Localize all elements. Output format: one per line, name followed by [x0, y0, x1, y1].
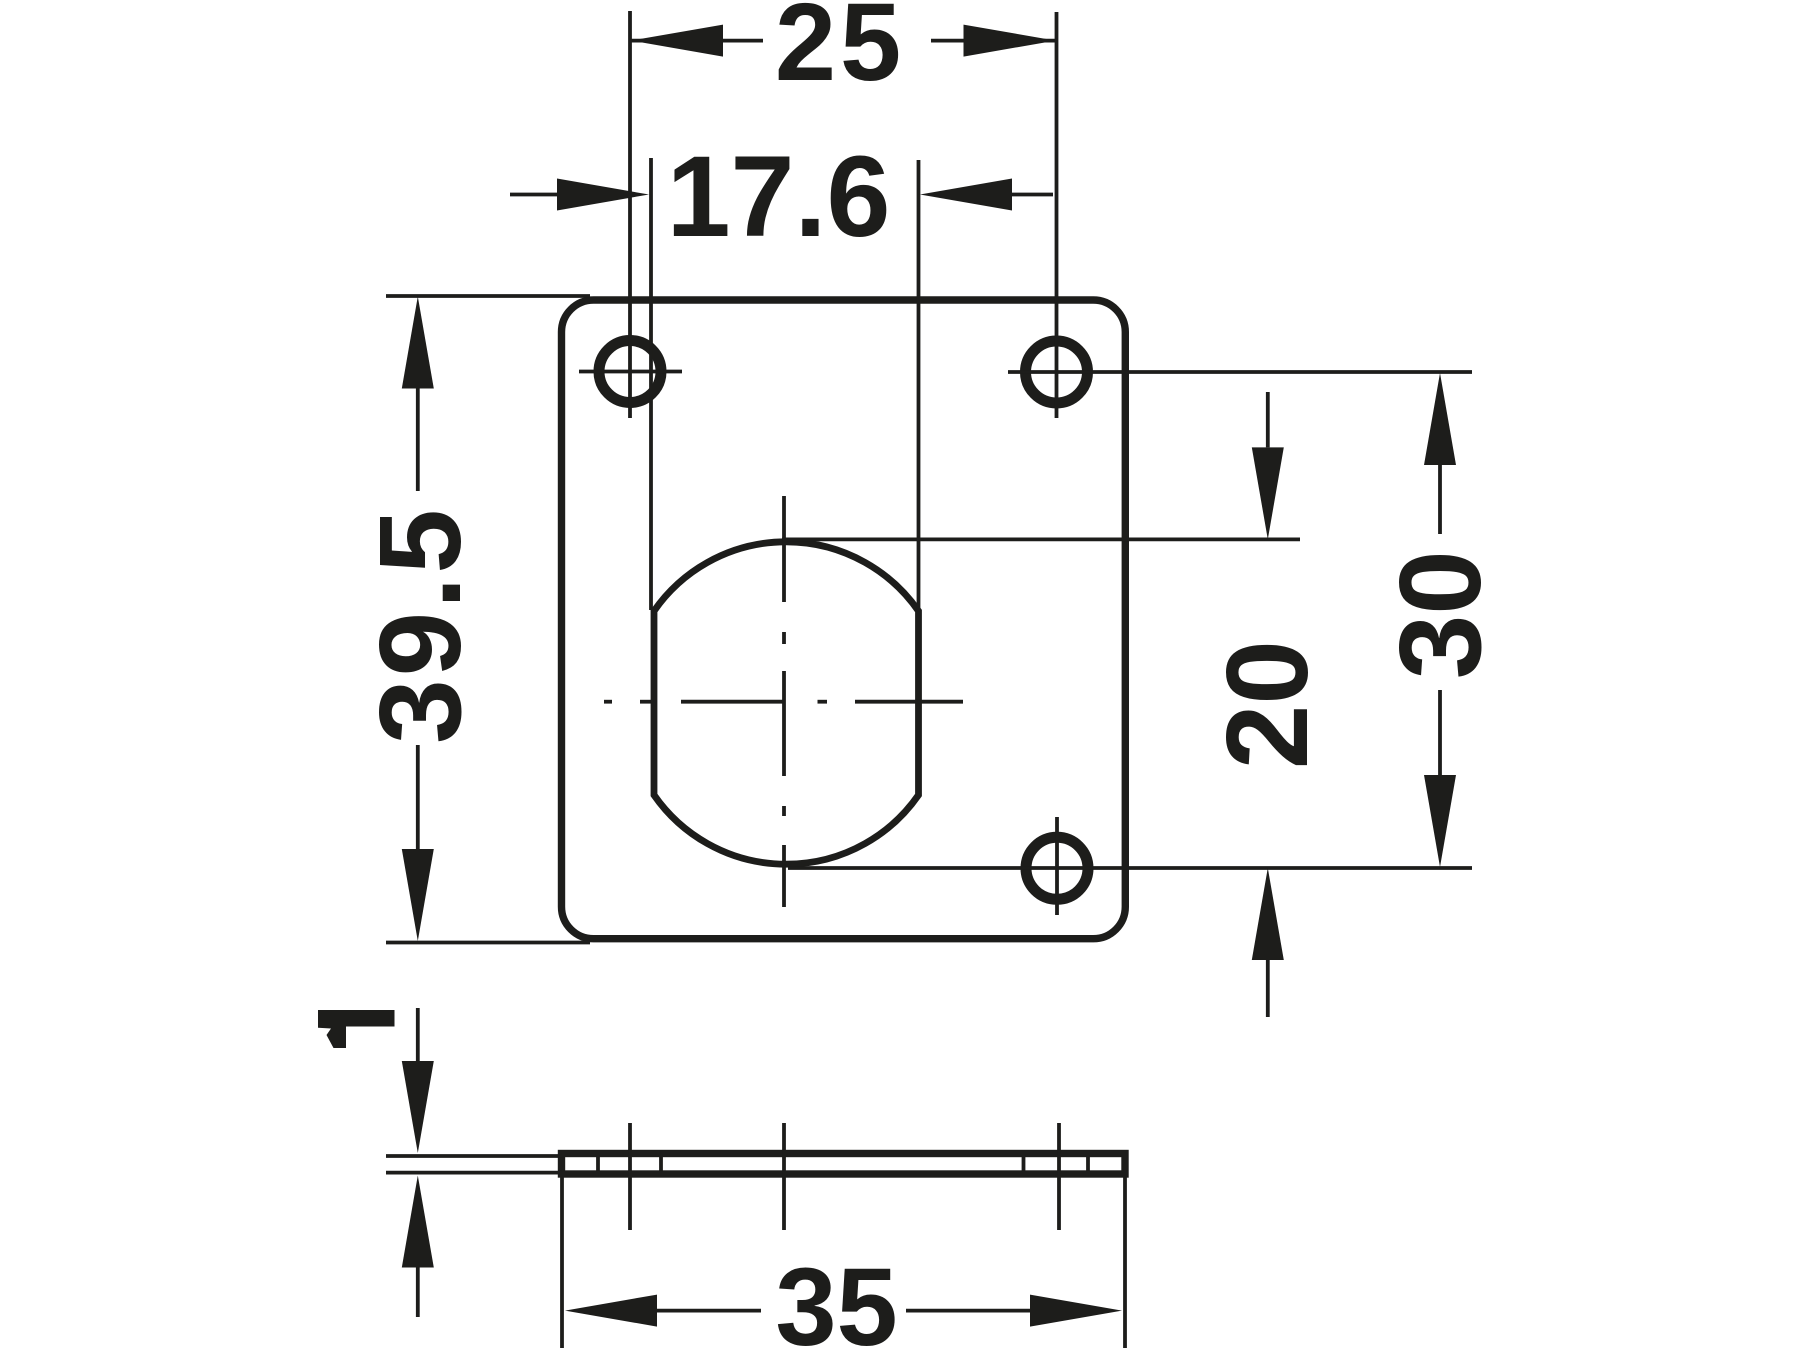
arrowhead 35 left: [565, 1295, 657, 1327]
side view centerline left holes: [628, 1123, 632, 1230]
extension line 35-left: [560, 1177, 564, 1348]
screw hole bottom-right: [1026, 837, 1088, 899]
dimension line 20 (arrows outside): [1266, 392, 1270, 1017]
plate outline (front view): [562, 300, 1126, 939]
dimension line 1 (arrows outside): [416, 1008, 420, 1317]
screw hole top-left: [599, 341, 661, 403]
large cylinder hole (circle with two vertical flats): [654, 542, 919, 864]
extension line 1-top: [386, 1154, 562, 1158]
arrowhead 30 up: [1424, 373, 1456, 465]
svg-text:39.5: 39.5: [355, 506, 485, 744]
dimension line 35: [657, 1309, 1030, 1313]
arrowhead 17.6 right: [920, 179, 1012, 211]
arrowhead 17.6 left: [557, 179, 649, 211]
extension line 39.5-bottom: [386, 941, 590, 945]
crosshair bottom-right hole / extension line 20/30-bottom: [788, 866, 1472, 870]
extension line 25-left / top-left hole centerline: [628, 11, 632, 418]
arrowhead 35 right: [1030, 1295, 1122, 1327]
crosshair bottom-right hole (vertical): [1055, 817, 1059, 915]
arrowhead 39.5 up: [402, 297, 434, 389]
dimension line 30: [1438, 465, 1442, 775]
extension line 17.6-left: [649, 158, 653, 610]
arrowhead 1 bottom: [402, 1176, 434, 1268]
svg-text:30: 30: [1375, 550, 1505, 679]
svg-text:17.6: 17.6: [667, 133, 891, 261]
extension line 1-bottom: [386, 1171, 562, 1175]
extension line 25-right / top-right hole centerline: [1055, 12, 1059, 418]
svg-text:25: 25: [775, 0, 905, 104]
dimension line 17.6 (arrows outside): [510, 193, 1053, 197]
svg-text:20: 20: [1202, 640, 1332, 769]
extension line 39.5-top: [386, 294, 590, 298]
crosshair top-right hole / extension line 30-top: [1008, 370, 1472, 374]
side view hole seam lines: [598, 1155, 1088, 1172]
centerline large hole vertical (dash-dot): [782, 496, 786, 907]
arrowhead 25 left: [631, 25, 723, 57]
arrowhead 30 down: [1424, 775, 1456, 867]
arrowhead 20 top: [1252, 447, 1284, 539]
side view plate bar: [562, 1154, 1126, 1175]
centerline large hole horizontal (dash-dot): [604, 700, 963, 704]
dimension text 1 (custom glyph, rotated): [318, 1010, 395, 1048]
screw hole top-right: [1026, 341, 1088, 403]
extension line 35-right: [1123, 1177, 1127, 1348]
extension line 17.6-right: [917, 160, 921, 610]
crosshair top-left hole (horizontal): [579, 370, 682, 374]
arrowhead 25 right: [964, 25, 1056, 57]
arrowhead 1 top: [402, 1061, 434, 1153]
side view centerline right holes: [1057, 1123, 1061, 1230]
dimension line 25: [631, 39, 1056, 43]
arrowhead 39.5 down: [402, 849, 434, 941]
dimension line 39.5: [416, 389, 420, 850]
arrowhead 20 bottom: [1252, 868, 1284, 960]
side view centerline large hole: [782, 1123, 786, 1230]
extension line 20-top (tangent of large hole): [782, 538, 1300, 542]
svg-text:35: 35: [775, 1246, 897, 1350]
